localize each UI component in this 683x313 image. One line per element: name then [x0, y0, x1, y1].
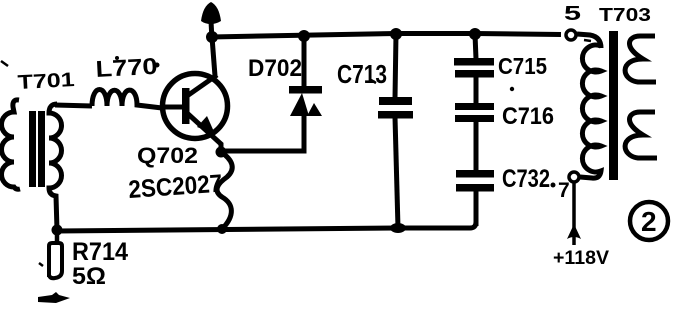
node C713 top junction [390, 28, 402, 40]
svg-text:5: 5 [564, 3, 581, 25]
svg-text:C716: C716 [502, 103, 554, 130]
node cap-stack top junction [469, 28, 481, 40]
svg-text:+118V: +118V [553, 248, 609, 269]
circled 2 marker [630, 202, 668, 240]
node D702 top junction [298, 30, 310, 42]
svg-text:C715: C715 [498, 53, 547, 79]
transformer T703 secondary winding 1 [625, 36, 656, 82]
wire +118V feed [572, 183, 576, 245]
transistor Q702 emitter stroke [187, 113, 221, 151]
node collector junction [206, 31, 218, 43]
pin 7 terminal [569, 172, 579, 182]
wire wavy emitter to bottom rail [217, 152, 232, 229]
wire T701 to L770 [55, 105, 92, 106]
wire top rail [211, 34, 561, 38]
node wavy-wire bottom junction [217, 224, 227, 234]
transistor Q702 collector stroke [187, 75, 217, 96]
node bottom-left junction [52, 225, 63, 236]
transformer T703 secondary winding 2 [625, 112, 657, 158]
wire bottom rail [57, 189, 476, 231]
svg-text:Q702: Q702 [137, 143, 198, 168]
speckle marks [1, 61, 8, 66]
ground [38, 292, 70, 303]
svg-text:R714: R714 [72, 238, 128, 266]
svg-text:T701: T701 [17, 69, 75, 94]
capacitor C732 [456, 122, 494, 226]
capacitor C713 [378, 34, 413, 228]
pin 5 terminal [566, 30, 576, 40]
inductor L770 [92, 90, 162, 109]
arrow +118V head [567, 224, 581, 239]
svg-text:T703: T703 [599, 5, 651, 25]
node C713 bottom junction [390, 223, 406, 233]
transformer T701 right winding [49, 104, 62, 230]
transformer T703 primary winding [580, 45, 601, 178]
svg-text:L770: L770 [95, 53, 158, 82]
svg-text:5Ω: 5Ω [72, 263, 106, 290]
svg-text:D702: D702 [248, 55, 302, 82]
transistor Q702 emitter arrowhead [197, 116, 215, 134]
transformer T701 core bars [29, 111, 36, 187]
capacitor C716 [455, 77, 494, 122]
transistor Q702 base bar [182, 88, 190, 124]
wire emitter to diode bottom [221, 112, 304, 151]
svg-text:2: 2 [641, 206, 657, 237]
svg-text:7: 7 [558, 179, 570, 202]
wire collector [212, 37, 215, 76]
node emitter junction [216, 147, 227, 158]
supply arrow (top) [201, 2, 221, 40]
svg-text:C713: C713 [337, 59, 387, 89]
svg-text:C732: C732 [502, 165, 550, 193]
transistor Q702 base lead [161, 105, 184, 110]
transistor Q702 circle [163, 74, 228, 139]
transformer T701 left winding [2, 100, 21, 189]
wire pin5 to T703 primary [577, 34, 601, 48]
transformer T703 core bar [609, 31, 618, 180]
diode D702 [289, 36, 322, 151]
capacitor C715 [454, 34, 494, 78]
resistor R714 [49, 230, 62, 278]
